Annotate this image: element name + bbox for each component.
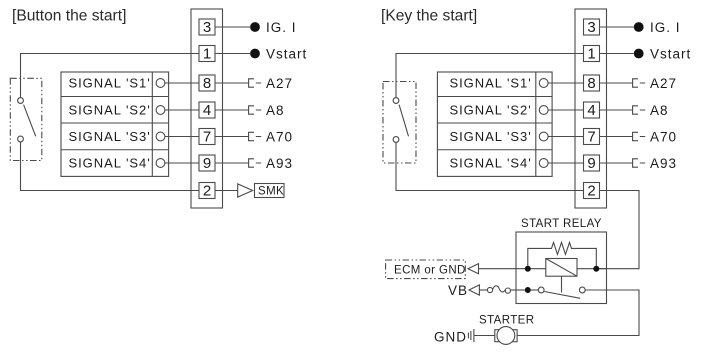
wire pin1 to Vstart <box>600 53 634 55</box>
arrow to ECM or GND <box>468 264 479 274</box>
wire VB to fuse <box>479 289 487 291</box>
wire pin 8 to connector A27 <box>600 82 633 84</box>
wire S2 circle to pin 4 <box>165 109 199 111</box>
wire S3 circle to pin 7 <box>548 136 583 138</box>
node IG. I (filled circle) <box>250 22 260 32</box>
buffer/driver triangle to SMK <box>238 184 253 197</box>
junction node coil left <box>525 266 531 272</box>
wire pin1 left to key switch <box>396 54 584 98</box>
arrow from VB <box>469 285 479 295</box>
start switch dashed enclosure <box>10 78 42 160</box>
wire S1 circle to pin 8 <box>165 82 199 84</box>
svg-text:A8: A8 <box>266 103 285 118</box>
pin 4 square <box>199 102 215 118</box>
junction node coil right <box>593 266 599 272</box>
svg-text:[Button the start]: [Button the start] <box>12 8 126 25</box>
svg-text:8: 8 <box>203 75 211 92</box>
svg-text:ECM or GND: ECM or GND <box>394 264 466 276</box>
switch blade <box>399 105 408 137</box>
relay coil diagonal <box>546 259 577 277</box>
svg-text:A8: A8 <box>650 103 669 118</box>
signal box divider S2/S3 <box>437 122 552 124</box>
signal box divider S3/S4 <box>61 149 169 151</box>
pin 8 square <box>199 75 215 91</box>
switch contact top <box>18 98 24 104</box>
ground symbol <box>468 329 474 342</box>
connector terminal A70 <box>633 132 646 140</box>
signal box divider S1/S2 <box>61 96 169 98</box>
connector J2 outer box <box>575 9 607 208</box>
wire S1 circle to pin 8 <box>548 82 583 84</box>
svg-text:7: 7 <box>203 129 211 146</box>
switch blade <box>24 105 36 137</box>
wire pin3 to IG. I <box>215 26 250 28</box>
relay switch blade <box>544 292 580 299</box>
connector terminal A27 <box>249 79 262 87</box>
wire switch bottom to pin 2 <box>396 142 584 190</box>
connector terminal A93 <box>249 159 262 167</box>
connector terminal A93 <box>633 159 646 167</box>
connector terminal A70 <box>249 132 262 140</box>
signal box divider S2/S3 <box>61 122 169 124</box>
wire switch bottom to pin 2 <box>21 142 200 191</box>
switch contact bottom <box>18 136 24 142</box>
pin 3 square <box>584 19 600 35</box>
pin 2 square <box>199 183 215 199</box>
switch contact top <box>393 98 399 104</box>
svg-text:A70: A70 <box>650 129 677 144</box>
pin 2 square <box>584 183 600 199</box>
svg-text:SIGNAL 'S3': SIGNAL 'S3' <box>69 129 151 144</box>
signal box contact column divider <box>151 72 153 176</box>
svg-text:IG. I: IG. I <box>266 20 297 35</box>
SMK box <box>255 184 285 198</box>
signal box contact column divider <box>535 72 537 176</box>
wire pin 7 to connector A70 <box>600 136 633 138</box>
starter motor frame <box>495 330 517 342</box>
node Vstart (filled circle) <box>250 49 260 59</box>
wire pin 4 to connector A8 <box>215 109 249 111</box>
pin 3 square <box>199 19 215 35</box>
pin 7 square <box>199 129 215 145</box>
ECM or GND dashed box <box>386 260 466 279</box>
wire pin 2 to start relay coil <box>599 191 639 269</box>
svg-text:A93: A93 <box>650 156 677 171</box>
wire pin 9 to connector A93 <box>600 162 633 164</box>
svg-text:2: 2 <box>587 183 595 200</box>
wire pin 7 to connector A70 <box>215 136 249 138</box>
wire pin 2 to SMK driver <box>215 190 238 192</box>
svg-text:GND: GND <box>434 329 467 344</box>
svg-text:SIGNAL 'S1': SIGNAL 'S1' <box>69 76 151 91</box>
relay switch contact left <box>538 287 544 293</box>
relay switch contact right <box>579 287 585 293</box>
svg-text:A93: A93 <box>266 156 293 171</box>
wire S2 circle to pin 4 <box>548 109 583 111</box>
wire pin3 to IG. I <box>600 26 634 28</box>
svg-text:2: 2 <box>203 183 211 200</box>
node Vstart (filled circle) <box>634 49 644 59</box>
svg-text:1: 1 <box>587 46 595 63</box>
wire relay output to starter <box>517 290 639 336</box>
relay coil box <box>546 259 577 277</box>
wire S4 circle to pin 9 <box>548 162 583 164</box>
wire fuse to relay switch <box>511 289 525 291</box>
svg-text:4: 4 <box>203 102 211 119</box>
wire pin 4 to connector A8 <box>600 109 633 111</box>
pin 1 square <box>584 46 600 62</box>
wire S3 circle to pin 7 <box>165 136 199 138</box>
wire pin 8 to connector A27 <box>215 82 249 84</box>
contact circle S4 <box>539 159 548 168</box>
signal box (SIGNAL 'S1'-'S4') <box>61 72 169 176</box>
contact circle S2 <box>156 106 165 115</box>
connector terminal A8 <box>633 106 646 114</box>
connector terminal A8 <box>249 106 262 114</box>
svg-text:SIGNAL 'S3': SIGNAL 'S3' <box>450 129 532 144</box>
key switch dashed enclosure <box>383 82 416 164</box>
wire to switch contact <box>531 289 538 291</box>
svg-text:A27: A27 <box>650 76 677 91</box>
svg-text:VB: VB <box>448 283 468 298</box>
svg-text:9: 9 <box>587 155 595 172</box>
svg-text:SMK: SMK <box>258 186 284 198</box>
svg-text:SIGNAL 'S2': SIGNAL 'S2' <box>450 103 532 118</box>
svg-text:A27: A27 <box>266 76 293 91</box>
svg-text:STARTER: STARTER <box>479 315 534 327</box>
contact circle S3 <box>156 132 165 141</box>
fusible link <box>487 287 492 292</box>
contact circle S4 <box>156 159 165 168</box>
svg-text:SIGNAL 'S1': SIGNAL 'S1' <box>450 76 532 91</box>
contact circle S1 <box>539 79 548 88</box>
wire pin1 to Vstart <box>215 53 250 55</box>
pin 9 square <box>584 155 600 171</box>
node IG. I (filled circle) <box>634 22 644 32</box>
junction node switch input <box>525 287 531 293</box>
contact circle S2 <box>539 106 548 115</box>
svg-text:IG. I: IG. I <box>650 20 681 35</box>
signal box (SIGNAL 'S1'-'S4') <box>437 72 552 176</box>
wire S4 circle to pin 9 <box>165 162 199 164</box>
pin 9 square <box>199 155 215 171</box>
contact circle S3 <box>539 132 548 141</box>
svg-text:9: 9 <box>203 155 211 172</box>
connector terminal A27 <box>633 79 646 87</box>
svg-text:7: 7 <box>587 129 595 146</box>
pin 4 square <box>584 102 600 118</box>
wire pin1 left to start switch <box>21 54 200 98</box>
signal box divider S1/S2 <box>437 96 552 98</box>
switch contact bottom <box>393 137 399 143</box>
svg-text:8: 8 <box>587 75 595 92</box>
wire pin 9 to connector A93 <box>215 162 249 164</box>
svg-text:START RELAY: START RELAY <box>521 218 602 230</box>
starter motor circle <box>497 327 515 345</box>
svg-text:SIGNAL 'S2': SIGNAL 'S2' <box>69 103 151 118</box>
relay armature link <box>561 276 563 292</box>
svg-text:4: 4 <box>587 102 595 119</box>
pin 1 square <box>199 46 215 62</box>
pin 7 square <box>584 129 600 145</box>
wire coil row <box>479 268 607 270</box>
svg-text:3: 3 <box>203 19 211 36</box>
svg-text:SIGNAL 'S4': SIGNAL 'S4' <box>69 156 151 171</box>
wire ground to starter <box>475 335 495 337</box>
svg-text:[Key the start]: [Key the start] <box>381 8 477 25</box>
svg-text:SIGNAL 'S4': SIGNAL 'S4' <box>450 156 532 171</box>
svg-text:1: 1 <box>203 46 211 63</box>
svg-text:3: 3 <box>587 19 595 36</box>
connector J1 outer box <box>191 9 223 208</box>
svg-text:A70: A70 <box>266 129 293 144</box>
svg-text:Vstart: Vstart <box>266 46 307 61</box>
start relay box <box>516 232 607 304</box>
signal box divider S3/S4 <box>437 149 552 151</box>
pin 8 square <box>584 75 600 91</box>
relay resistor <box>528 242 597 268</box>
svg-text:Vstart: Vstart <box>650 46 691 61</box>
contact circle S1 <box>156 79 165 88</box>
